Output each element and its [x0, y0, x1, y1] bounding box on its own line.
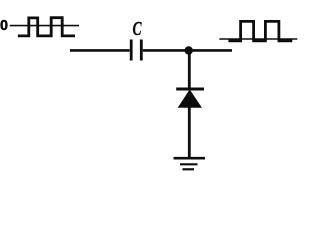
node junction dot	[185, 46, 193, 54]
svg-text:C: C	[133, 18, 142, 40]
input square waveform	[18, 18, 75, 36]
wire input to capacitor	[70, 49, 130, 52]
svg-text:0: 0	[0, 18, 8, 34]
wire capacitor to output	[143, 49, 232, 52]
diode anode triangle	[179, 90, 201, 107]
wire diode to ground	[188, 107, 191, 158]
capacitor C left plate	[130, 40, 133, 61]
wire output zero-reference axis line	[219, 38, 297, 40]
wire input zero-reference axis line	[10, 25, 79, 27]
wire junction down to diode	[188, 51, 191, 90]
output clamped square waveform	[228, 21, 292, 40]
ground symbol	[174, 158, 206, 169]
diode cathode bar	[176, 88, 204, 91]
capacitor C right plate	[140, 40, 143, 61]
